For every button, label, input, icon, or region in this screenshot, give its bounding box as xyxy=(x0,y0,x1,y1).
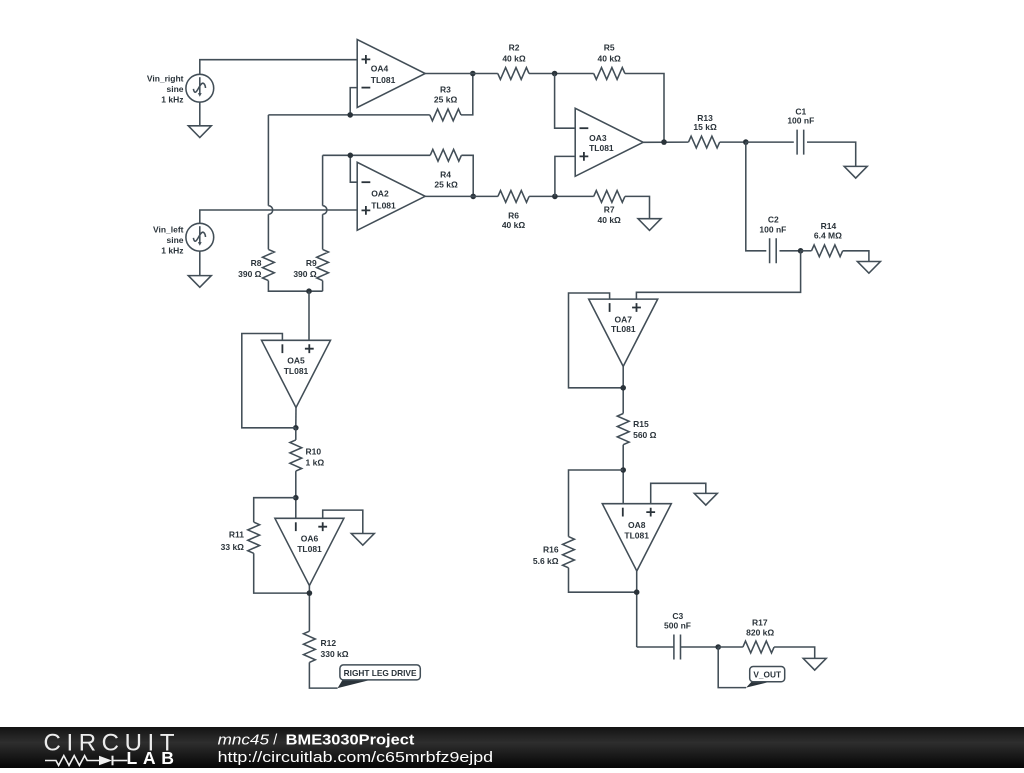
svg-text:40 kΩ: 40 kΩ xyxy=(598,215,622,225)
svg-text:V_OUT: V_OUT xyxy=(753,670,781,680)
svg-text:R6: R6 xyxy=(508,210,519,220)
svg-text:OA8: OA8 xyxy=(628,520,646,530)
svg-text:R16: R16 xyxy=(543,544,559,554)
svg-text:/: / xyxy=(273,733,277,749)
svg-text:OA4: OA4 xyxy=(371,63,389,73)
svg-text:500 nF: 500 nF xyxy=(664,620,691,630)
svg-text:330 kΩ: 330 kΩ xyxy=(321,649,349,659)
svg-text:R7: R7 xyxy=(604,205,615,215)
svg-text:15 kΩ: 15 kΩ xyxy=(693,122,717,132)
svg-text:1 kΩ: 1 kΩ xyxy=(306,458,325,468)
svg-text:R11: R11 xyxy=(229,530,244,540)
svg-text:25 kΩ: 25 kΩ xyxy=(434,95,458,105)
svg-text:Vin_left: Vin_left xyxy=(153,224,184,234)
svg-text:RIGHT LEG DRIVE: RIGHT LEG DRIVE xyxy=(344,668,417,678)
svg-text:TL081: TL081 xyxy=(611,324,636,334)
svg-text:820 kΩ: 820 kΩ xyxy=(746,628,774,638)
svg-text:OA2: OA2 xyxy=(371,188,389,198)
svg-text:OA3: OA3 xyxy=(589,133,607,143)
svg-text:R14: R14 xyxy=(821,221,837,231)
svg-text:sine: sine xyxy=(166,235,183,245)
svg-text:sine: sine xyxy=(166,84,183,94)
svg-text:C2: C2 xyxy=(768,214,779,224)
svg-text:LAB: LAB xyxy=(127,748,176,768)
svg-text:R8: R8 xyxy=(251,258,262,268)
svg-text:25 kΩ: 25 kΩ xyxy=(434,180,458,190)
svg-text:R3: R3 xyxy=(440,85,451,95)
svg-text:40 kΩ: 40 kΩ xyxy=(502,54,526,64)
svg-text:560 Ω: 560 Ω xyxy=(633,430,657,440)
svg-text:33 kΩ: 33 kΩ xyxy=(221,542,245,552)
svg-text:TL081: TL081 xyxy=(297,544,322,554)
svg-text:mnc45: mnc45 xyxy=(218,733,269,749)
svg-text:http://circuitlab.com/c65mrbfz: http://circuitlab.com/c65mrbfz9ejpd xyxy=(218,750,494,766)
svg-text:R12: R12 xyxy=(321,638,337,648)
svg-text:R5: R5 xyxy=(604,43,615,53)
svg-text:OA6: OA6 xyxy=(301,534,319,544)
svg-text:390 Ω: 390 Ω xyxy=(238,269,262,279)
svg-text:1 kHz: 1 kHz xyxy=(161,246,183,256)
svg-text:TL081: TL081 xyxy=(589,143,614,153)
svg-text:R10: R10 xyxy=(306,447,322,457)
svg-text:40 kΩ: 40 kΩ xyxy=(502,220,526,230)
svg-text:R4: R4 xyxy=(440,170,451,180)
svg-text:1 kHz: 1 kHz xyxy=(161,95,183,105)
svg-text:R2: R2 xyxy=(509,43,520,53)
svg-text:R17: R17 xyxy=(752,617,768,627)
svg-text:6.4 MΩ: 6.4 MΩ xyxy=(814,231,842,241)
svg-text:40 kΩ: 40 kΩ xyxy=(598,54,622,64)
svg-text:100 nF: 100 nF xyxy=(759,224,786,234)
svg-text:R9: R9 xyxy=(306,258,317,268)
svg-text:390 Ω: 390 Ω xyxy=(293,269,317,279)
svg-text:5.6 kΩ: 5.6 kΩ xyxy=(533,556,559,566)
svg-text:TL081: TL081 xyxy=(371,201,396,211)
svg-text:BME3030Project: BME3030Project xyxy=(286,733,415,749)
svg-text:R15: R15 xyxy=(633,419,649,429)
svg-text:TL081: TL081 xyxy=(624,531,649,541)
svg-text:TL081: TL081 xyxy=(284,366,309,376)
svg-text:TL081: TL081 xyxy=(371,75,396,85)
svg-text:100 nF: 100 nF xyxy=(787,115,814,125)
svg-text:Vin_right: Vin_right xyxy=(147,74,184,84)
svg-text:OA5: OA5 xyxy=(287,356,305,366)
